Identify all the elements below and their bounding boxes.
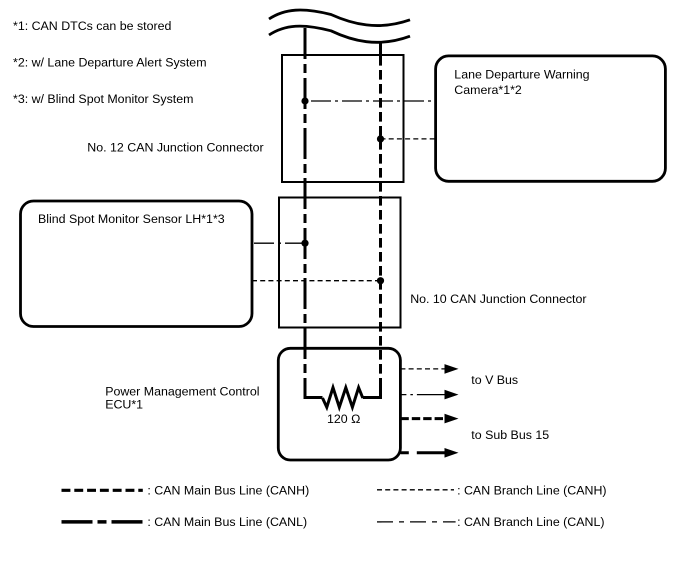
legend: CAN Branch Line CANL sample (thin dash-dot) (377, 521, 456, 523)
arrow: CANH branch to V Bus (thin dashed) (400, 368, 445, 370)
node: CANH tap in No. 12 connector (377, 135, 384, 142)
wire: CANL branch line from blind spot sensor (thin dash-dot) (252, 242, 305, 244)
break symbol (bus continuation wave upper) (269, 10, 410, 26)
svg-text:ECU*1: ECU*1 (105, 398, 143, 412)
svg-text:*1: CAN DTCs can be stored: *1: CAN DTCs can be stored (13, 19, 171, 33)
wire: CANH branch line to camera (thin dashed) (381, 138, 436, 140)
svg-text:Power Management Control: Power Management Control (105, 384, 259, 398)
legend: CAN Branch Line CANH sample (thin dashed) (377, 489, 454, 491)
arrow: CANL main bus to Sub Bus 15 (thick dash-dot) (400, 451, 445, 454)
arrow: CANL branch to V Bus (thin dash-dot) (400, 394, 445, 396)
resistor R (120 ohm terminating resistor) (323, 388, 363, 408)
wire: CANL main bus line (left vertical, dash-dot) (304, 28, 307, 378)
break symbol (bus continuation wave lower) (269, 26, 410, 42)
node: CANL tap in No. 10 connector (301, 240, 308, 247)
wire: CANH branch line from blind spot sensor (thin dashed) (252, 280, 381, 282)
svg-text:to V Bus: to V Bus (471, 373, 518, 387)
Power Management Control ECU box (278, 348, 400, 460)
arrow: CANH main bus to Sub Bus 15 (thick dashed) (400, 417, 445, 420)
Blind Spot Monitor Sensor box (21, 201, 253, 327)
svg-text:120 Ω: 120 Ω (327, 412, 360, 426)
svg-text:to Sub Bus 15: to Sub Bus 15 (471, 428, 549, 442)
svg-text:No. 10 CAN Junction Connector: No. 10 CAN Junction Connector (410, 292, 586, 306)
svg-text:Lane Departure Warning: Lane Departure Warning (454, 67, 589, 81)
wire: CANL branch line to camera (thin dash-dot) (305, 100, 436, 102)
svg-text:No. 12 CAN Junction Connector: No. 12 CAN Junction Connector (87, 141, 263, 155)
wire: CANH main bus corner into ECU (solid elbow to resistor) (363, 385, 381, 398)
svg-text:Blind Spot Monitor Sensor LH*1: Blind Spot Monitor Sensor LH*1*3 (38, 212, 225, 226)
svg-text:*3: w/ Blind Spot Monitor Syst: *3: w/ Blind Spot Monitor System (13, 92, 193, 106)
Lane Departure Warning Camera box (436, 56, 666, 181)
legend: CAN Main Bus Line CANL sample (thick dash-dot) (62, 520, 143, 524)
No. 10 CAN junction connector box (279, 198, 401, 328)
wire: CANH main bus line (right vertical, dashed) (379, 42, 382, 56)
wire: CANL main bus corner into ECU (solid elbow to resistor) (305, 378, 323, 398)
svg-text:: CAN Main Bus Line (CANL): : CAN Main Bus Line (CANL) (147, 515, 307, 529)
svg-text:: CAN Branch Line (CANH): : CAN Branch Line (CANH) (457, 483, 606, 497)
svg-text:Camera*1*2: Camera*1*2 (454, 83, 522, 97)
svg-text:: CAN Main Bus Line (CANH): : CAN Main Bus Line (CANH) (147, 483, 309, 497)
legend: CAN Main Bus Line CANH sample (thick dashed) (62, 489, 143, 492)
node: CANL tap in No. 12 connector (301, 97, 308, 104)
node: CANH tap in No. 10 connector (377, 277, 384, 284)
svg-text:*2: w/ Lane Departure Alert Sy: *2: w/ Lane Departure Alert System (13, 56, 207, 70)
No. 12 CAN junction connector box (282, 55, 404, 182)
svg-text:: CAN Branch Line (CANL): : CAN Branch Line (CANL) (457, 515, 604, 529)
